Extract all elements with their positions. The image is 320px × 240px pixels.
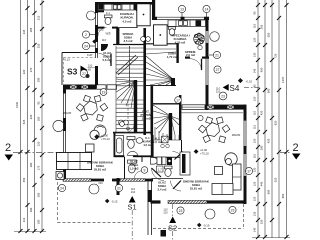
svg-text:1,5 m2: 1,5 m2 xyxy=(130,167,139,171)
svg-text:24: 24 xyxy=(60,186,64,190)
terrace dashed right xyxy=(153,204,244,229)
washing machine K2 xyxy=(162,136,169,143)
ULAZ black box xyxy=(167,157,172,165)
right sofa xyxy=(212,164,241,195)
svg-text:K.1: K.1 xyxy=(106,11,110,15)
svg-text:1.7: 1.7 xyxy=(158,168,163,172)
wardrobe 1 xyxy=(137,4,150,26)
svg-text:320: 320 xyxy=(22,69,26,74)
circled numbers xyxy=(58,5,252,219)
svg-text:420: 420 xyxy=(260,110,264,115)
section marker 2 right xyxy=(280,142,301,160)
svg-text:115: 115 xyxy=(253,124,257,129)
svg-text:110: 110 xyxy=(253,110,257,115)
right dimension ticks xyxy=(256,3,289,239)
terrace dashed left xyxy=(58,182,132,223)
wall V7 right outer lower xyxy=(244,105,247,121)
window circle on V6 xyxy=(210,32,220,42)
left dimension line cluster xyxy=(14,0,46,232)
small dim labels xyxy=(63,11,241,214)
svg-text:210: 210 xyxy=(131,190,136,194)
wall H4 top of left stairs xyxy=(113,44,144,46)
bottom wall left unit xyxy=(63,179,91,182)
svg-text:370: 370 xyxy=(29,67,33,72)
svg-text:135: 135 xyxy=(253,211,257,216)
right armchair xyxy=(225,153,237,165)
svg-text:2: 2 xyxy=(85,33,87,37)
svg-text:290: 290 xyxy=(37,77,41,82)
svg-text:35,81 m2: 35,81 m2 xyxy=(94,168,107,172)
left small table xyxy=(86,144,95,152)
svg-text:210: 210 xyxy=(22,217,26,222)
svg-text:210: 210 xyxy=(163,210,168,214)
wall stub V8 xyxy=(117,178,120,195)
svg-text:2: 2 xyxy=(293,142,299,154)
svg-text:-0,15: -0,15 xyxy=(64,58,71,62)
door arc V1 xyxy=(99,53,112,66)
top-right room plant xyxy=(194,33,205,44)
svg-text:23: 23 xyxy=(231,208,235,212)
svg-text:95: 95 xyxy=(253,11,257,14)
wc shelf black xyxy=(95,10,104,12)
svg-text:+75,10: +75,10 xyxy=(101,137,110,141)
svg-text:1,0 m2: 1,0 m2 xyxy=(142,117,151,121)
svg-text:550: 550 xyxy=(267,32,271,37)
svg-text:720: 720 xyxy=(274,53,278,58)
WC2 wall xyxy=(124,157,126,180)
wall H7a above right stair xyxy=(153,103,181,105)
svg-text:24: 24 xyxy=(84,44,88,48)
svg-text:2: 2 xyxy=(5,142,11,154)
left sofa xyxy=(57,153,92,170)
ULAZ side wall down xyxy=(147,181,149,235)
left stair center post xyxy=(134,80,137,133)
wall H6 left black with boxes xyxy=(63,85,96,90)
svg-text:5,6 m2: 5,6 m2 xyxy=(103,58,112,62)
toilet right unit top xyxy=(169,27,176,36)
bathroom tub xyxy=(115,136,124,156)
svg-text:380: 380 xyxy=(29,162,33,167)
right dimension numbers xyxy=(253,11,286,232)
svg-text:110: 110 xyxy=(102,38,107,42)
right kitchen counter xyxy=(168,20,206,26)
svg-text:420: 420 xyxy=(29,114,33,119)
svg-text:120: 120 xyxy=(253,196,257,201)
svg-text:525: 525 xyxy=(22,119,26,124)
svg-text:390: 390 xyxy=(29,207,33,212)
svg-text:210: 210 xyxy=(216,89,221,93)
svg-text:25,81 m2: 25,81 m2 xyxy=(190,187,203,191)
left kitchen counter xyxy=(98,4,137,10)
right stair center post xyxy=(169,113,172,140)
wall H3 below WC xyxy=(95,27,105,29)
svg-text:235: 235 xyxy=(22,29,26,34)
svg-text:4,5 m2: 4,5 m2 xyxy=(123,19,132,23)
svg-text:450: 450 xyxy=(260,67,264,72)
svg-text:4,6 m2: 4,6 m2 xyxy=(143,143,152,147)
svg-text:120: 120 xyxy=(253,167,257,172)
svg-text:225: 225 xyxy=(37,141,41,146)
svg-text:330: 330 xyxy=(260,219,264,224)
window circle on V2 xyxy=(53,120,64,131)
svg-text:520: 520 xyxy=(274,177,278,182)
svg-text:-0,15: -0,15 xyxy=(203,224,210,228)
svg-text:280x80: 280x80 xyxy=(232,133,241,137)
svg-text:21: 21 xyxy=(215,53,219,57)
right stair lower fan xyxy=(153,105,181,140)
wall H5 with door top right room xyxy=(185,57,190,59)
bathroom toilet xyxy=(127,137,135,149)
svg-text:120: 120 xyxy=(253,138,257,143)
terrace post black xyxy=(161,230,167,237)
svg-text:17: 17 xyxy=(247,169,251,173)
svg-text:215: 215 xyxy=(37,15,41,20)
svg-text:95: 95 xyxy=(253,84,257,87)
svg-text:255: 255 xyxy=(37,43,41,48)
svg-text:27: 27 xyxy=(82,72,86,76)
basin on bottom wall xyxy=(128,151,138,155)
K2 door arc top xyxy=(173,152,184,163)
svg-text:K.1: K.1 xyxy=(145,136,150,140)
left dimension numbers xyxy=(15,15,41,224)
K2 door arc xyxy=(152,168,165,181)
WC2 toilet bottom-left xyxy=(128,160,137,173)
wall V3 xyxy=(136,4,138,28)
left dining table xyxy=(76,95,107,121)
wall V4 center between stairs xyxy=(143,28,146,135)
svg-text:4,20 m2: 4,20 m2 xyxy=(175,41,186,45)
building walls xyxy=(53,0,247,235)
wardrobe 2 xyxy=(154,25,168,45)
svg-text:17: 17 xyxy=(176,98,180,102)
svg-text:2,0 m2: 2,0 m2 xyxy=(186,53,195,57)
WC2 door arc xyxy=(134,171,143,180)
right stair upper fan xyxy=(146,49,176,86)
ULAZ 1.7 box xyxy=(157,166,164,172)
wall V6 right outer top xyxy=(206,17,209,31)
svg-text:180: 180 xyxy=(37,116,41,121)
ULAZ washer and closet row xyxy=(151,157,167,165)
svg-text:13: 13 xyxy=(180,7,184,11)
svg-text:140: 140 xyxy=(253,227,257,232)
svg-text:14: 14 xyxy=(205,7,209,11)
svg-text:19: 19 xyxy=(102,90,106,94)
svg-text:620: 620 xyxy=(274,120,278,125)
svg-text:110: 110 xyxy=(88,64,93,68)
svg-text:1530: 1530 xyxy=(15,102,19,108)
svg-text:23: 23 xyxy=(221,94,225,98)
room labels xyxy=(87,12,210,192)
svg-text:95: 95 xyxy=(37,101,41,104)
svg-text:125: 125 xyxy=(253,181,257,186)
wall V11 center top xyxy=(152,0,155,18)
svg-text:265: 265 xyxy=(29,27,33,32)
S1 marker xyxy=(128,196,137,240)
wall H7 right with boxes xyxy=(205,105,246,110)
svg-text:3,5 m2: 3,5 m2 xyxy=(124,39,133,43)
left stove black xyxy=(99,4,104,9)
svg-text:175: 175 xyxy=(37,165,41,170)
left stair winder fan xyxy=(116,79,136,109)
bottom wall right unit xyxy=(151,200,161,203)
wall V5 right of column lower xyxy=(151,85,154,135)
svg-text:280: 280 xyxy=(260,145,264,150)
svg-text:1,70 m2: 1,70 m2 xyxy=(167,55,178,59)
left stair upper flight xyxy=(116,46,143,88)
svg-text:280x80: 280x80 xyxy=(63,111,72,115)
svg-text:S4: S4 xyxy=(230,84,240,93)
left dimension ticks xyxy=(19,1,45,233)
svg-text:-0,15: -0,15 xyxy=(97,28,104,32)
svg-text:205: 205 xyxy=(260,24,264,29)
svg-text:9: 9 xyxy=(144,168,146,172)
svg-text:-0,15: -0,15 xyxy=(246,80,253,84)
entry door assembly xyxy=(180,152,190,175)
svg-text:S3: S3 xyxy=(67,67,78,77)
svg-text:145: 145 xyxy=(253,68,257,73)
svg-text:180: 180 xyxy=(37,219,41,224)
left sofa corner box xyxy=(56,172,64,180)
svg-text:21: 21 xyxy=(117,186,121,190)
svg-text:+75,10: +75,10 xyxy=(200,151,209,155)
svg-text:1,5 m2: 1,5 m2 xyxy=(153,140,162,144)
K2 small circles xyxy=(161,144,165,148)
right upper stair post xyxy=(171,78,175,86)
svg-text:440: 440 xyxy=(260,181,264,186)
small bath top-left door arc xyxy=(98,28,107,37)
svg-text:600: 600 xyxy=(267,189,271,194)
right small table xyxy=(215,167,223,175)
svg-text:210: 210 xyxy=(98,181,103,185)
wall V2 left outer lower xyxy=(63,85,66,94)
svg-text:110: 110 xyxy=(253,153,257,158)
svg-text:850: 850 xyxy=(281,193,285,198)
WC top-left toilet xyxy=(105,15,113,25)
right dimension line cluster xyxy=(252,0,290,238)
svg-text:27: 27 xyxy=(216,68,220,72)
wall left outer V1 xyxy=(95,2,98,13)
wall piece at 153-181 y157 xyxy=(153,156,181,158)
svg-text:130: 130 xyxy=(253,52,257,57)
right dining table xyxy=(198,117,229,143)
entry door arc xyxy=(171,181,182,192)
section marker 2 left xyxy=(5,142,63,161)
bathroom sink xyxy=(136,138,143,144)
wall right stair east x178 xyxy=(176,43,178,63)
svg-text:580: 580 xyxy=(267,88,271,93)
svg-text:120: 120 xyxy=(253,96,257,101)
wall ULAZ east thin xyxy=(181,140,183,152)
svg-text:23: 23 xyxy=(179,209,183,213)
S4 marker xyxy=(223,78,260,93)
bathroom label xyxy=(143,136,153,147)
wall top H1 xyxy=(95,2,155,5)
svg-text:120: 120 xyxy=(253,37,257,42)
left stair lower flight xyxy=(116,88,143,132)
S2 marker xyxy=(168,204,177,240)
wall top-right H2 window band xyxy=(152,16,209,18)
svg-text:285: 285 xyxy=(37,192,41,197)
svg-text:450: 450 xyxy=(22,177,26,182)
svg-text:KUP: KUP xyxy=(87,53,93,57)
bathroom walls H8 V9 H9 xyxy=(113,132,152,134)
svg-text:-0,15: -0,15 xyxy=(111,200,118,204)
ULAZ inner wall thin xyxy=(152,178,184,180)
svg-text:420: 420 xyxy=(267,138,271,143)
wall H dining top thin xyxy=(181,112,243,114)
bath door arc left xyxy=(125,123,135,133)
height markers xyxy=(92,28,252,228)
svg-text:2,4 m2: 2,4 m2 xyxy=(158,188,167,192)
svg-text:110: 110 xyxy=(253,23,257,28)
ULAZ toilet xyxy=(165,166,173,177)
svg-text:1470: 1470 xyxy=(281,77,285,83)
svg-text:KUPAT.: KUPAT. xyxy=(143,139,153,143)
door fan filled left xyxy=(101,44,108,51)
wall H upper of right stairs xyxy=(146,43,178,45)
S3 porch xyxy=(62,53,95,86)
left fridge black xyxy=(134,4,139,10)
left armchairs xyxy=(90,125,106,139)
K.2 left wall xyxy=(151,135,154,157)
